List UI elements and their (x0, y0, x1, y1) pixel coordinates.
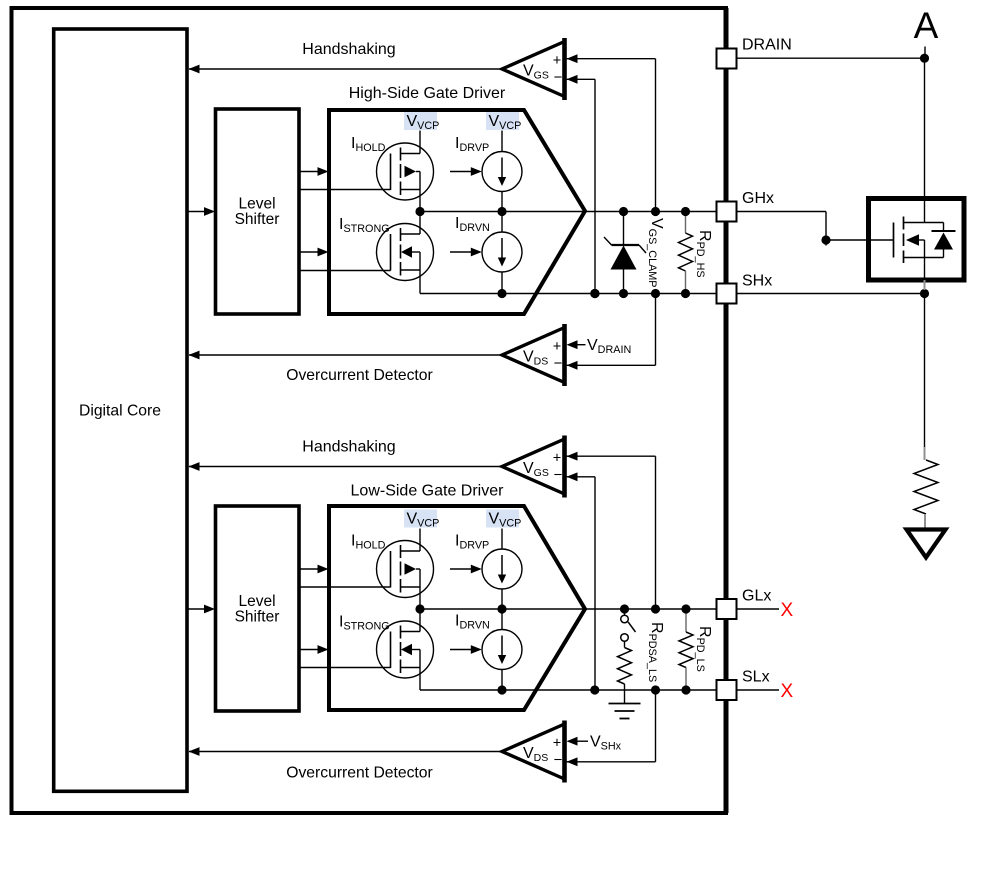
svg-text:X: X (781, 681, 794, 702)
svg-text:SLx: SLx (742, 669, 770, 686)
svg-text:GHx: GHx (742, 190, 774, 207)
svg-text:Level: Level (238, 196, 275, 213)
svg-text:+: + (553, 450, 561, 466)
svg-text:Overcurrent Detector: Overcurrent Detector (286, 765, 432, 782)
svg-text:VGS: VGS (523, 460, 549, 479)
svg-text:SHx: SHx (742, 273, 772, 290)
svg-text:Shifter: Shifter (235, 609, 280, 626)
svg-text:−: − (554, 751, 563, 768)
svg-text:ISTRONG: ISTRONG (339, 216, 390, 235)
svg-text:IDRVP: IDRVP (455, 533, 489, 552)
svg-text:ISTRONG: ISTRONG (339, 614, 390, 633)
svg-text:Shifter: Shifter (235, 211, 280, 228)
svg-text:Overcurrent Detector: Overcurrent Detector (286, 367, 432, 384)
svg-text:RPD_HS: RPD_HS (694, 230, 713, 278)
svg-text:IDRVN: IDRVN (455, 613, 490, 632)
svg-text:X: X (781, 600, 794, 621)
svg-text:IHOLD: IHOLD (351, 533, 386, 552)
svg-text:Digital Core: Digital Core (79, 403, 161, 420)
svg-text:GLx: GLx (742, 588, 771, 605)
svg-text:−: − (554, 466, 563, 483)
svg-text:IDRVP: IDRVP (455, 135, 489, 154)
svg-text:−: − (554, 69, 563, 86)
svg-text:Handshaking: Handshaking (302, 439, 395, 456)
svg-text:Handshaking: Handshaking (302, 41, 395, 58)
svg-text:VDRAIN: VDRAIN (587, 337, 631, 356)
svg-text:Low-Side Gate Driver: Low-Side Gate Driver (351, 483, 505, 500)
svg-text:VDS: VDS (523, 745, 548, 764)
svg-text:IHOLD: IHOLD (351, 135, 386, 154)
svg-text:IDRVN: IDRVN (455, 215, 490, 234)
svg-text:High-Side Gate Driver: High-Side Gate Driver (349, 85, 506, 102)
svg-text:+: + (553, 53, 561, 69)
svg-text:Level: Level (238, 593, 275, 610)
svg-text:RPD_LS: RPD_LS (694, 626, 713, 672)
svg-text:VGS: VGS (523, 63, 549, 82)
svg-text:+: + (553, 339, 561, 355)
svg-text:DRAIN: DRAIN (742, 37, 792, 54)
svg-text:−: − (554, 355, 563, 372)
svg-text:VSHx: VSHx (590, 734, 622, 753)
svg-text:A: A (914, 5, 939, 46)
svg-text:+: + (553, 735, 561, 751)
svg-text:VDS: VDS (523, 349, 548, 368)
